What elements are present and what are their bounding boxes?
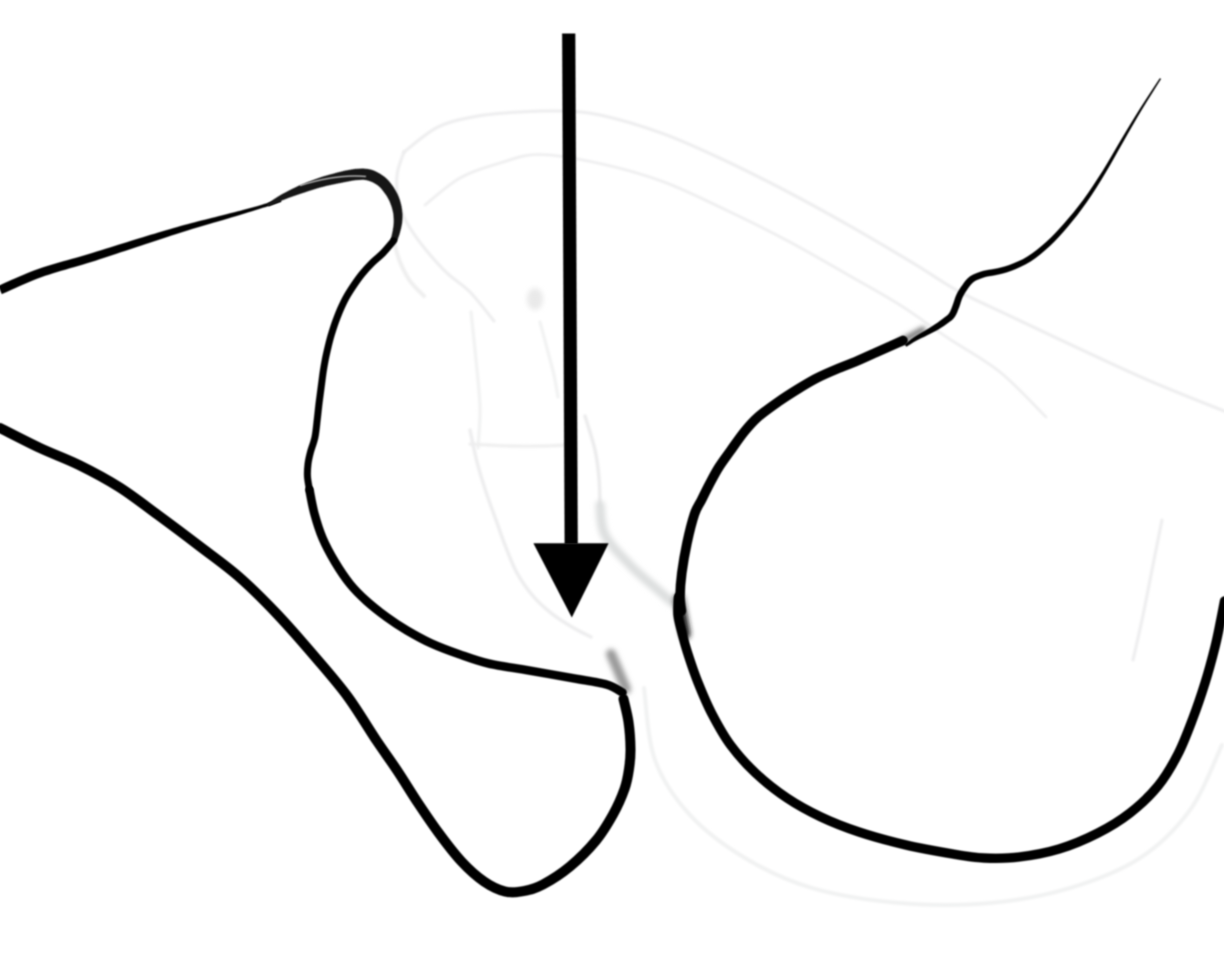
gray overlap knot on blob left side [679, 599, 686, 634]
left bone hook loop (tapered) [267, 169, 402, 242]
left bone inner sweep (lower) [310, 490, 623, 693]
gray smudge from corner cusp toward arrow tip [611, 654, 626, 689]
faint arc right of arrow tip [585, 416, 600, 505]
arrow shaft [569, 34, 572, 545]
hook top highlight [300, 176, 366, 186]
faint arc left of arrow tip [470, 430, 591, 637]
arrow head [533, 543, 608, 617]
faint hook tail extension [394, 242, 424, 296]
faint sketch oval top edge and right diagonal [404, 111, 1224, 411]
faint inner arc right of blob [1133, 520, 1162, 660]
left bone lower outline with U hook [0, 428, 631, 892]
top right S-curve (tapered) [905, 78, 1162, 347]
faint lower diagonal [425, 154, 1046, 417]
faint funnel right line [540, 322, 558, 397]
gray lead-in of blob shoulder [901, 330, 923, 342]
faint big arc around blob bottom [644, 688, 1222, 905]
faint band toward blob knot [600, 505, 673, 603]
left bone inner descent (upper) [307, 241, 393, 490]
faint sketch oval left drop [397, 152, 494, 321]
femoral blob lower outline [678, 597, 1224, 858]
faint funnel left line [471, 312, 480, 448]
faint horizontal tick [470, 444, 566, 446]
gray smear left of arrow shaft [527, 288, 543, 310]
femoral blob shoulder (upper left) [680, 341, 903, 612]
left bone top line (tapered) [0, 199, 281, 294]
